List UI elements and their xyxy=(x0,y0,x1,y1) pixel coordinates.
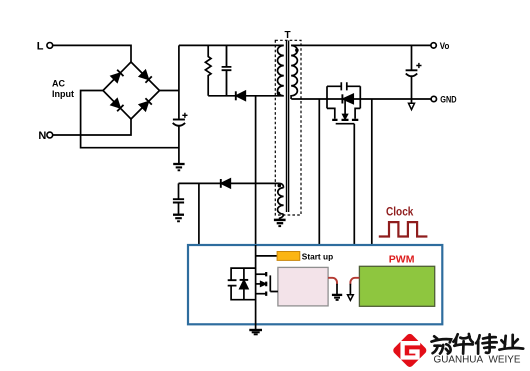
terminal L xyxy=(47,43,53,49)
char ye xyxy=(505,336,506,347)
svg-text:AC: AC xyxy=(52,79,65,89)
wire bridge right vertex to bus xyxy=(160,90,179,92)
wire secondary top to Vo xyxy=(291,44,431,46)
char wei xyxy=(476,335,480,343)
svg-text:Input: Input xyxy=(52,89,74,99)
transformer core lines xyxy=(287,41,289,213)
logo G glyph xyxy=(403,343,421,357)
mosfet Q1 gate xyxy=(270,275,278,291)
wire snubber bottom xyxy=(208,95,236,97)
wire red pwm hook xyxy=(350,278,359,285)
secondary polarity dot xyxy=(295,48,299,52)
terminal GND xyxy=(431,96,436,101)
pwm block xyxy=(359,266,434,306)
resistor R1 snubber xyxy=(205,45,211,95)
svg-text:GUANHUA WEIYE: GUANHUA WEIYE xyxy=(434,355,521,366)
wire rail tap to controller xyxy=(318,99,320,245)
svg-text:GND: GND xyxy=(440,95,457,105)
capacitor C3 vcc filter xyxy=(173,199,184,202)
wire vcc cap branch xyxy=(178,183,180,198)
logo chinese characters xyxy=(432,334,524,354)
logo diamond xyxy=(392,332,428,368)
mosfet Q1 source stub xyxy=(256,293,266,295)
svg-text:N: N xyxy=(38,130,46,142)
diode D7 body diode xyxy=(341,94,343,103)
diode D8 body diode Q1 xyxy=(243,268,245,279)
capacitor Coss Q1 plates xyxy=(228,280,237,285)
ground G4 primary source xyxy=(249,330,262,334)
wire secondary ground rail xyxy=(291,98,431,100)
svg-text:L: L xyxy=(37,41,44,53)
wire diode to aux winding xyxy=(230,182,279,184)
wire aux vcc xyxy=(179,182,221,184)
driver block xyxy=(278,267,328,306)
diode D5 snubber clamp xyxy=(235,91,237,100)
svg-text:Vo: Vo xyxy=(440,41,450,52)
capacitor C4 output (polarized) xyxy=(406,69,418,71)
aux winding top lead xyxy=(279,183,283,187)
ground G2 vcc cap xyxy=(173,214,184,216)
transformer secondary winding xyxy=(291,45,297,99)
wire startup feed xyxy=(256,255,278,257)
primary polarity dot xyxy=(277,92,281,96)
controller box xyxy=(188,245,442,324)
aux polarity dot xyxy=(278,184,282,188)
mosfet Q1 channel bars xyxy=(265,272,267,296)
startup block xyxy=(277,252,300,261)
svg-text:PWM: PWM xyxy=(389,254,415,266)
capacitor C1 bulk (polarized) xyxy=(173,119,185,121)
bridge diode D1 top-left xyxy=(111,70,124,83)
terminal Vo xyxy=(431,43,436,48)
wire primary drain line xyxy=(255,96,257,245)
wire L to bridge top xyxy=(53,45,131,62)
wire bus below cap xyxy=(178,126,180,163)
mosfet Q2 legs xyxy=(327,108,360,118)
wire bridge left vertex to bottom rail xyxy=(81,91,179,148)
wire main DC bus xyxy=(178,45,180,118)
wire vcc to controller xyxy=(198,183,200,245)
transformer T dashed core box xyxy=(275,40,301,215)
wire rail right tap to controller xyxy=(371,99,373,245)
aux winding bottom lead xyxy=(280,214,284,219)
wire drain into box xyxy=(255,245,257,329)
transformer primary winding xyxy=(277,45,283,95)
svg-text:Start up: Start up xyxy=(302,251,333,261)
wire output cap branch xyxy=(411,45,413,69)
bridge rectifier diamond xyxy=(103,62,160,119)
mosfet Q1 drain stub xyxy=(256,273,266,275)
wire red driver to ground hook xyxy=(328,278,337,285)
floating arrow pwm xyxy=(348,295,354,301)
wire snubber top xyxy=(179,44,284,46)
mosfet Q2 sync rectifier body loop xyxy=(327,86,360,108)
mosfet Q2 gate xyxy=(336,124,355,245)
mosfet Q2 body leg with arrow xyxy=(344,99,346,118)
capacitor C2 snubber xyxy=(222,45,232,95)
mosfet Q1 body stub with arrow xyxy=(256,283,264,285)
capacitor Coss plates xyxy=(341,82,347,90)
diode D6 aux rectifier xyxy=(220,179,222,188)
wire diode to primary xyxy=(245,95,283,97)
mosfet Q1 primary switch loop xyxy=(231,268,256,300)
clock waveform xyxy=(379,222,428,236)
bridge diode D2 top-right xyxy=(139,70,152,83)
bridge diode D3 bottom-left xyxy=(111,99,124,112)
transformer auxiliary winding xyxy=(278,188,284,215)
wire N to bridge bottom xyxy=(53,119,131,135)
svg-text:T: T xyxy=(284,30,290,41)
char hua xyxy=(453,334,457,341)
ground G5 driver xyxy=(332,294,342,296)
bridge diode D4 bottom-right xyxy=(139,98,152,111)
output ground arrow xyxy=(411,99,413,103)
ground G3 aux winding xyxy=(274,219,286,222)
ground G1 main xyxy=(173,163,184,165)
terminal N xyxy=(47,132,53,138)
char guan xyxy=(434,336,437,338)
svg-text:Clock: Clock xyxy=(386,207,414,219)
mosfet Q2 channel bars xyxy=(332,119,358,121)
